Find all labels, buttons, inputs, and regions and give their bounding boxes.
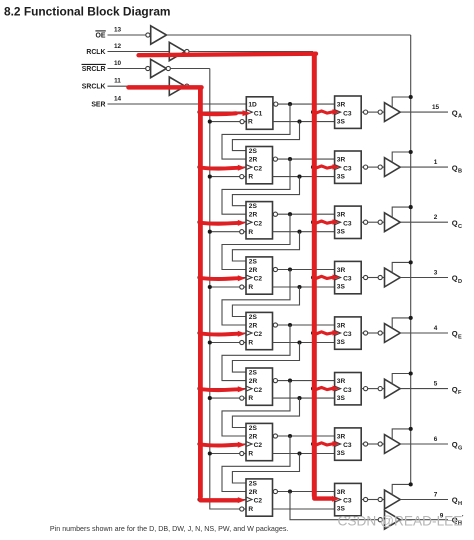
svg-text:3S: 3S (337, 506, 346, 513)
svg-text:H: H (458, 501, 462, 507)
output buffer BA input bubble (378, 110, 382, 114)
latch UF output bubble (361, 388, 363, 390)
latch UG (3R C3 3S) (335, 428, 362, 460)
wire output QH' (400, 519, 448, 521)
svg-text:8.2 Functional Block Diagram: 8.2 Functional Block Diagram (4, 4, 171, 18)
output buffer BE input bubble (378, 331, 382, 335)
svg-text:3: 3 (434, 270, 438, 277)
svg-text:3R: 3R (337, 489, 346, 496)
svg-text:3R: 3R (337, 212, 346, 219)
svg-text:2R: 2R (249, 433, 258, 440)
junction Q node stage 4 (297, 285, 301, 289)
junction enable rail stage 8 (409, 482, 413, 486)
svg-text:C3: C3 (343, 442, 352, 449)
svg-text:C2: C2 (254, 220, 263, 227)
junction latch-clock stage 2 (311, 165, 315, 169)
svg-text:3R: 3R (337, 101, 346, 108)
wire FF5 Q to latch E 3S (273, 342, 335, 344)
junction latch-clock stage 5 (311, 331, 315, 335)
red arrow into FF3 C2 (201, 220, 246, 226)
flip-flop FF4 R input bubble (240, 285, 244, 289)
svg-text:R: R (248, 506, 253, 513)
svg-text:SRCLK: SRCLK (82, 84, 106, 91)
red arrow into FF1 C1 (201, 110, 251, 116)
junction Qbar node stage 1 (288, 102, 292, 106)
svg-text:2R: 2R (249, 378, 258, 385)
flip-flop FF4 (stage 4, 2S 2R C2 R) (246, 257, 273, 294)
latch UG output bubble (361, 443, 363, 445)
wire reset to stage 7 R (210, 453, 240, 455)
wire shift-clock to stage 2 clock (200, 166, 247, 168)
enable rail (OE vertical) (410, 35, 412, 484)
inverter G4 output bubble (185, 84, 189, 88)
junction reset rail stage 4 (208, 285, 212, 289)
svg-text:Q: Q (452, 329, 458, 338)
junction Qbar node stage 6 (288, 379, 292, 383)
output buffer BA (three-state) (385, 103, 401, 122)
wire FF2 Q to FF3 2S (232, 177, 299, 206)
red trace RCLK horizontal (139, 54, 317, 56)
wire OE input (108, 34, 147, 36)
junction latch-clock stage 7 (311, 442, 315, 446)
junction Qbar node stage 5 (288, 323, 292, 327)
svg-text:3R: 3R (337, 156, 346, 163)
latch UD output bubble (361, 277, 363, 279)
red trace SRCLK vertical (198, 86, 203, 498)
latch UH output bubble (361, 499, 363, 501)
output buffer BD (three-state) (385, 268, 401, 287)
wire enable to buffer BC (392, 207, 411, 217)
svg-text:3S: 3S (337, 173, 346, 180)
shift-clock rail (SRCLK vertical) (199, 86, 201, 499)
svg-text:C1: C1 (254, 110, 263, 117)
junction Q node stage 6 (297, 396, 301, 400)
wire FF8 Q to latch H 3S (273, 508, 335, 510)
svg-text:3S: 3S (337, 339, 346, 346)
wire FF3 Qbar to latch C 3R (278, 213, 335, 215)
svg-text:D: D (458, 279, 462, 285)
svg-text:2S: 2S (249, 314, 258, 321)
flip-flop FF2 Qbar output bubble (273, 157, 277, 161)
svg-text:3S: 3S (337, 395, 346, 402)
flip-flop FF5 R input bubble (240, 340, 244, 344)
svg-text:10: 10 (114, 60, 122, 67)
latch UA output bubble (361, 111, 363, 113)
wire FF5 Qbar to latch E 3R (278, 324, 335, 326)
wire FF4 Q to latch D 3S (273, 286, 335, 288)
wire latch-clock to latch E C3 (313, 332, 335, 334)
flip-flop FF8 Qbar output bubble (273, 489, 277, 493)
svg-text:14: 14 (114, 95, 122, 102)
junction reset rail stage 3 (208, 230, 212, 234)
svg-text:2S: 2S (249, 148, 258, 155)
svg-text:C2: C2 (254, 331, 263, 338)
wire FF6 Q to latch F 3S (273, 397, 335, 399)
svg-text:3S: 3S (337, 228, 346, 235)
wire FF4 Qbar to latch D 3R (278, 269, 335, 271)
svg-text:SRCLR: SRCLR (82, 66, 106, 73)
svg-text:1: 1 (434, 159, 438, 166)
output buffer BD input bubble (378, 275, 382, 279)
svg-text:R: R (248, 340, 253, 347)
flip-flop FF7 R input bubble (240, 451, 244, 455)
latch UD (3R C3 3S) (335, 261, 362, 293)
latch UE (3R C3 3S) (335, 317, 362, 349)
svg-text:C3: C3 (343, 387, 352, 394)
svg-text:C3: C3 (343, 498, 352, 505)
svg-text:A: A (458, 114, 462, 120)
junction shift-clock stage 4 (197, 275, 201, 279)
latch UF (3R C3 3S) (335, 373, 362, 405)
output buffer BC input bubble (378, 220, 382, 224)
junction shift-clock stage 3 (197, 220, 201, 224)
wire FF4 Q to FF5 2S (232, 287, 299, 317)
svg-text:2S: 2S (249, 480, 258, 487)
junction Qbar node stage 8 (288, 489, 292, 493)
junction Qbar node stage 4 (288, 267, 292, 271)
inverter G2 output bubble (185, 49, 189, 53)
latch UC (3R C3 3S) (335, 206, 362, 238)
wire FF5 Qbar to FF6 2R (222, 325, 290, 381)
flip-flop FF3 (stage 3, 2S 2R C2 R) (246, 202, 273, 239)
latch UC output bubble (361, 221, 363, 223)
wire enable to buffer BE (392, 318, 411, 328)
latch UB (3R C3 3S) (335, 151, 362, 183)
wire output QG (400, 443, 448, 445)
wire OE to enable rail (166, 34, 410, 36)
flip-flop FF7 (stage 7, 2S 2R C2 R) (246, 423, 273, 460)
wire shift-clock to stage 7 clock (200, 443, 247, 445)
flip-flop FF2 (stage 2, 2S 2R C2 R) (246, 147, 273, 184)
wire RCLK to latch-clock rail (189, 51, 313, 53)
wire shift-clock to stage 3 clock (200, 221, 247, 223)
wire SRCLK input (108, 85, 170, 87)
svg-text:12: 12 (114, 43, 122, 50)
junction reset rail stage 6 (208, 396, 212, 400)
svg-text:3S: 3S (337, 284, 346, 291)
wire FF2 Q to latch B 3S (273, 176, 335, 178)
wire SRCLK to shift-clock rail (189, 85, 200, 87)
svg-text:2: 2 (434, 214, 438, 221)
wire latch G to output buffer (368, 443, 378, 445)
svg-text:4: 4 (434, 325, 438, 332)
wire FF5 Q to FF6 2S (232, 343, 299, 373)
red arrow into latch D C3 (316, 275, 340, 281)
inverter G3 input bubble (146, 66, 150, 70)
wire FF7 Q to FF8 2S (232, 454, 299, 484)
wire output QE (400, 332, 448, 334)
output buffer BF (three-state) (385, 379, 401, 398)
wire enable to buffer BF (392, 374, 411, 384)
wire FF8 Qbar to QH' buffer (290, 492, 379, 520)
svg-text:C2: C2 (254, 442, 263, 449)
wire FF7 Qbar to FF8 2R (222, 436, 290, 492)
wire FF4 Qbar to FF5 2R (222, 270, 290, 326)
junction latch-clock stage 3 (311, 220, 315, 224)
red arrow into latch G C3 (316, 441, 340, 447)
output buffer BB (three-state) (385, 158, 401, 177)
inverter G2 (RCLK) (169, 42, 185, 60)
wire FF8 Qbar to latch H 3R (278, 491, 335, 493)
svg-text:15: 15 (432, 104, 440, 111)
wire reset to stage 8 R (210, 508, 240, 510)
output buffer BH (three-state) (385, 490, 401, 509)
wire latch-clock to latch D C3 (313, 277, 335, 279)
flip-flop FF5 (stage 5, 2S 2R C2 R) (246, 312, 273, 349)
svg-text:2R: 2R (249, 156, 258, 163)
wire latch C to output buffer (368, 221, 378, 223)
svg-text:C3: C3 (343, 276, 352, 283)
wire enable to buffer BD (392, 262, 411, 272)
red arrow into FF7 C2 (201, 442, 246, 448)
svg-text:7: 7 (434, 492, 438, 499)
svg-text:Q: Q (452, 163, 458, 172)
inverter G3 output bubble (166, 66, 170, 70)
flip-flop FF3 Qbar output bubble (273, 212, 277, 216)
svg-text:2S: 2S (249, 425, 258, 432)
wire output QC (400, 221, 448, 223)
wire FF1 Qbar to FF2 2R (222, 104, 290, 159)
red arrow into latch E C3 (316, 330, 340, 336)
svg-text:Q: Q (452, 108, 458, 117)
junction shift-clock stage 1 (197, 110, 201, 114)
latch UA (3R C3 3S) (335, 96, 362, 128)
junction latch-clock stage 6 (311, 387, 315, 391)
wire latch-clock to latch G C3 (313, 443, 335, 445)
wire latch-clock to latch B C3 (313, 166, 335, 168)
flip-flop FF4 Qbar output bubble (273, 267, 277, 271)
red trace RCLK vertical (312, 52, 317, 496)
wire shift-clock to stage 8 clock (200, 499, 247, 501)
wire FF2 Qbar to latch B 3R (278, 158, 335, 160)
buffer G1 input bubble (146, 33, 150, 37)
svg-text:Q: Q (452, 385, 458, 394)
wire output QF (400, 388, 448, 390)
junction enable rail stage 4 (409, 260, 413, 264)
junction latch-clock stage 4 (311, 275, 315, 279)
wire FF7 Qbar to latch G 3R (278, 435, 335, 437)
svg-text:R: R (248, 174, 253, 181)
red arrow into latch B C3 (316, 164, 340, 170)
junction latch-clock stage 1 (311, 110, 315, 114)
wire FF6 Qbar to latch F 3R (278, 380, 335, 382)
wire latch F to output buffer (368, 388, 378, 390)
junction shift-clock stage 5 (197, 331, 201, 335)
red arrow into FF6 C2 (201, 386, 246, 392)
wire FF2 Qbar to FF3 2R (222, 159, 290, 214)
wire reset to stage 1 R (210, 121, 241, 123)
flip-flop FF7 Qbar output bubble (273, 434, 277, 438)
wire latch E to output buffer (368, 332, 378, 334)
svg-text:C3: C3 (343, 220, 352, 227)
svg-text:3R: 3R (337, 267, 346, 274)
svg-text:OE: OE (96, 32, 106, 39)
svg-text:CSDN @READ-LEE: CSDN @READ-LEE (338, 514, 463, 529)
latch UH (3R C3 3S) (335, 483, 362, 515)
wire latch D to output buffer (368, 277, 378, 279)
junction enable rail stage 6 (409, 371, 413, 375)
wire shift-clock to stage 6 clock (200, 388, 247, 390)
svg-text:R: R (248, 284, 253, 291)
output buffer B9 input bubble (378, 518, 382, 522)
svg-text:1D: 1D (248, 101, 257, 108)
wire output QA (400, 111, 448, 113)
wire shift-clock to stage 4 clock (200, 277, 247, 279)
svg-text:2R: 2R (249, 489, 258, 496)
flip-flop FF1 R input bubble (240, 120, 244, 124)
junction shift-clock stage 2 (197, 165, 201, 169)
junction Q node stage 5 (297, 340, 301, 344)
wire SRCLR to reset rail (170, 68, 210, 70)
svg-text:R: R (248, 395, 253, 402)
junction Qbar node stage 7 (288, 434, 292, 438)
wire FF1 Q to latch A 3S (273, 121, 335, 123)
junction reset rail stage 7 (208, 451, 212, 455)
wire FF1 Q to FF2 2S (232, 122, 299, 151)
svg-text:3R: 3R (337, 378, 346, 385)
flip-flop FF5 Qbar output bubble (273, 323, 277, 327)
junction enable rail stage 2 (409, 150, 413, 154)
flip-flop FF6 Qbar output bubble (273, 379, 277, 383)
svg-text:C2: C2 (254, 498, 263, 505)
junction reset rail stage 1 (208, 120, 212, 124)
wire SRCLR input (108, 68, 146, 70)
reset rail (SRCLR vertical) (210, 69, 240, 510)
wire FF6 Qbar to FF7 2R (222, 381, 290, 436)
wire latch-clock to latch A C3 (313, 111, 335, 113)
wire shift-clock to stage 5 clock (200, 332, 247, 334)
wire enable to buffer BB (392, 152, 411, 162)
wire reset to stage 2 R (210, 176, 240, 178)
junction enable rail stage 1 (409, 95, 413, 99)
svg-text:SER: SER (91, 101, 105, 108)
flip-flop FF1 (stage 1, 1D C1 R) (246, 97, 273, 130)
wire output QH (400, 499, 448, 501)
svg-text:2R: 2R (249, 212, 258, 219)
wire FF6 Q to FF7 2S (232, 398, 299, 427)
wire shift-clock to stage 1 clock (200, 111, 247, 113)
wire latch A to output buffer (368, 111, 378, 113)
svg-text:13: 13 (114, 26, 122, 33)
svg-text:G: G (458, 446, 462, 452)
inverter G4 (SRCLK) (169, 77, 185, 95)
svg-text:B: B (458, 169, 462, 175)
wire FF3 Q to latch C 3S (273, 231, 335, 233)
junction Q node stage 1 (297, 120, 301, 124)
svg-text:C3: C3 (343, 110, 352, 117)
junction Q node stage 7 (297, 451, 301, 455)
junction shift-clock stage 7 (197, 442, 201, 446)
wire SER to 1D input (108, 103, 247, 105)
svg-text:2S: 2S (249, 203, 258, 210)
wire reset to stage 4 R (210, 286, 240, 288)
svg-text:C: C (458, 224, 462, 230)
svg-text:E: E (458, 335, 462, 341)
svg-text:F: F (458, 390, 462, 396)
wire latch-clock to latch C C3 (313, 221, 335, 223)
flip-flop FF6 (stage 6, 2S 2R C2 R) (246, 368, 273, 405)
svg-text:C2: C2 (254, 165, 263, 172)
svg-text:Pin numbers shown are for the: Pin numbers shown are for the D, DB, DW,… (50, 525, 289, 533)
svg-text:R: R (248, 451, 253, 458)
red arrow into FF4 C2 (201, 275, 246, 281)
wire FF3 Q to FF4 2S (232, 232, 299, 261)
red trace SRCLK horizontal (129, 85, 202, 90)
svg-text:C2: C2 (254, 276, 263, 283)
svg-text:11: 11 (114, 78, 121, 85)
latch UB output bubble (361, 166, 363, 168)
svg-text:R: R (248, 119, 253, 126)
flip-flop FF3 R input bubble (240, 230, 244, 234)
svg-text:C3: C3 (343, 165, 352, 172)
junction enable rail stage 5 (409, 316, 413, 320)
svg-text:3S: 3S (337, 118, 346, 125)
wire enable to buffer BA (392, 97, 411, 107)
red arrow into FF2 C2 (201, 165, 246, 171)
svg-text:2S: 2S (249, 258, 258, 265)
wire latch-clock to latch H C3 (313, 499, 335, 501)
red arrow into FF5 C2 (201, 331, 246, 337)
junction Qbar node stage 3 (288, 212, 292, 216)
junction Q node stage 3 (297, 230, 301, 234)
svg-text:Q: Q (452, 218, 458, 227)
junction reset rail stage 2 (208, 175, 212, 179)
red corner and arrow into latch H C3 (314, 495, 339, 502)
wire enable to buffer BH (392, 484, 411, 494)
wire latch H to output buffer (368, 499, 378, 501)
buffer G1 (OE, inverted input) (151, 26, 167, 44)
wire output QB (400, 166, 448, 168)
output buffer BG (three-state) (385, 435, 401, 454)
inverter G3 (SRCLR) (151, 59, 167, 77)
svg-text:C3: C3 (343, 331, 352, 338)
svg-text:R: R (248, 229, 253, 236)
flip-flop FF8 R input bubble (240, 507, 244, 511)
output buffer B9 (QH') (385, 510, 401, 529)
red arrow into latch C C3 (316, 219, 340, 225)
junction reset rail stage 5 (208, 340, 212, 344)
svg-text:RCLK: RCLK (86, 49, 105, 56)
wire FF1 Qbar to latch A 3R (278, 103, 335, 105)
wire reset to stage 3 R (210, 231, 240, 233)
output buffer BF input bubble (378, 387, 382, 391)
svg-text:2R: 2R (249, 267, 258, 274)
junction Q node stage 2 (297, 175, 301, 179)
svg-text:6: 6 (434, 436, 438, 443)
svg-text:3R: 3R (337, 322, 346, 329)
junction enable rail stage 7 (409, 427, 413, 431)
junction shift-clock stage 6 (197, 387, 201, 391)
red corner and arrow into FF8 C2 (200, 496, 245, 504)
output buffer BC (three-state) (385, 213, 401, 232)
flip-flop FF6 R input bubble (240, 396, 244, 400)
output buffer BE (three-state) (385, 324, 401, 343)
svg-text:3R: 3R (337, 433, 346, 440)
flip-flop FF1 Qbar output bubble (274, 102, 278, 106)
latch-clock rail (RCLK vertical) (312, 52, 314, 500)
svg-text:Q: Q (452, 274, 458, 283)
junction Qbar node stage 2 (288, 157, 292, 161)
red arrow into latch F C3 (316, 386, 340, 392)
wire reset to stage 5 R (210, 342, 240, 344)
wire FF3 Qbar to FF4 2R (222, 214, 290, 269)
red arrow into latch A C3 (316, 109, 340, 115)
wire latch-clock to latch F C3 (313, 388, 335, 390)
wire RCLK input (108, 51, 170, 53)
flip-flop FF2 R input bubble (240, 175, 244, 179)
svg-text:3S: 3S (337, 450, 346, 457)
svg-text:Q: Q (452, 496, 458, 505)
